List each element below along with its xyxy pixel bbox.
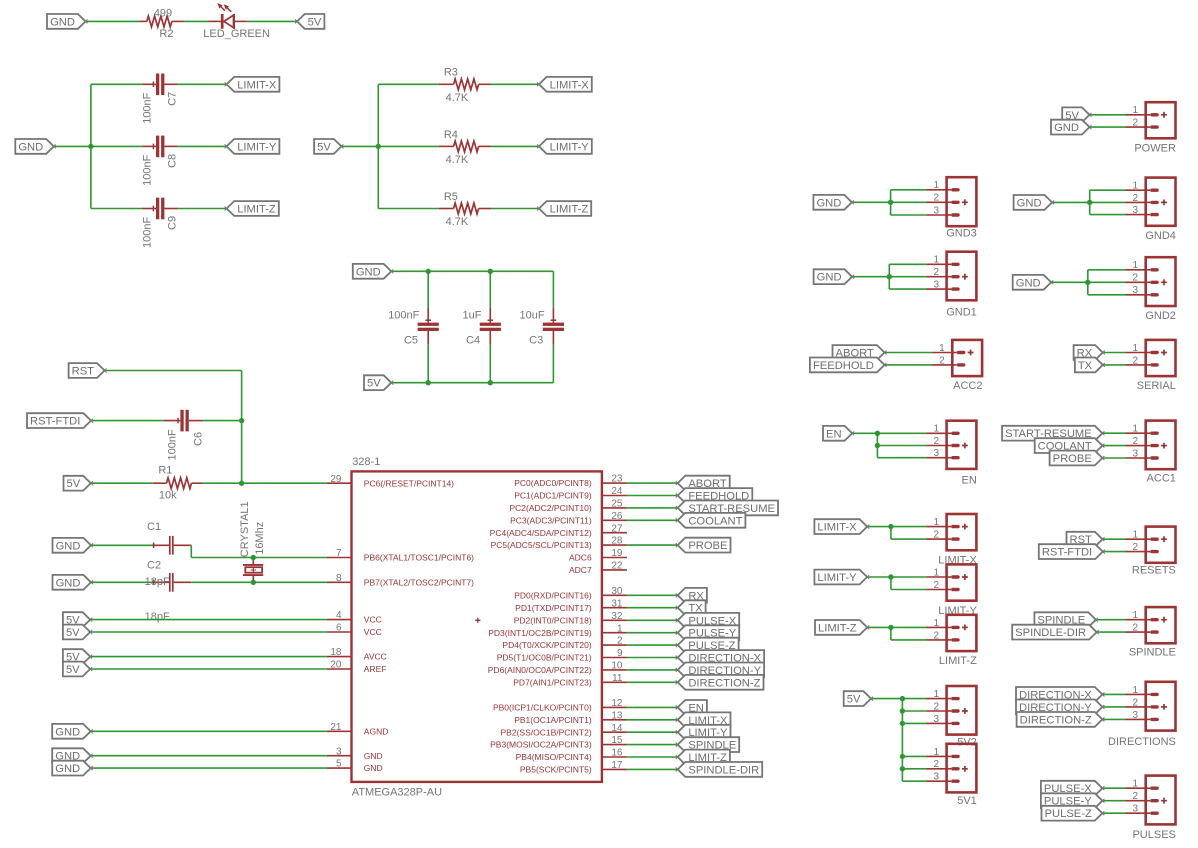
svg-text:R3: R3 (444, 67, 458, 79)
svg-text:10uF: 10uF (520, 309, 545, 321)
svg-text:SERIAL: SERIAL (1137, 380, 1176, 392)
svg-text:2: 2 (933, 759, 939, 770)
svg-text:PD1(TXD/PCINT17): PD1(TXD/PCINT17) (515, 603, 592, 613)
svg-text:PC1(ADC1/PCINT9): PC1(ADC1/PCINT9) (514, 491, 592, 501)
svg-text:5V: 5V (317, 141, 331, 153)
svg-text:GND3: GND3 (946, 228, 977, 240)
svg-text:C1: C1 (147, 521, 161, 533)
svg-text:1: 1 (617, 623, 623, 634)
svg-text:5V: 5V (67, 478, 81, 490)
svg-text:LIMIT-Z: LIMIT-Z (818, 622, 857, 634)
svg-text:5V: 5V (367, 378, 381, 390)
svg-text:1: 1 (933, 424, 939, 435)
svg-text:CRYSTAL1: CRYSTAL1 (239, 501, 251, 557)
svg-text:DIRECTIONS: DIRECTIONS (1108, 736, 1176, 748)
svg-text:RST-FTDI: RST-FTDI (30, 416, 80, 428)
svg-text:LIMIT-X: LIMIT-X (237, 79, 277, 91)
svg-text:31: 31 (611, 598, 623, 609)
svg-text:3: 3 (933, 772, 939, 783)
svg-text:C5: C5 (404, 334, 418, 346)
svg-text:PROBE: PROBE (688, 540, 727, 552)
svg-text:GND: GND (817, 272, 842, 284)
svg-text:PROBE: PROBE (1053, 453, 1092, 465)
svg-text:2: 2 (1133, 118, 1139, 129)
svg-text:20: 20 (330, 660, 342, 671)
svg-text:5: 5 (336, 759, 342, 770)
svg-text:DIRECTION-Z: DIRECTION-Z (1020, 714, 1092, 726)
svg-text:PD5(T1/OC0B/PCINT21): PD5(T1/OC0B/PCINT21) (497, 653, 592, 663)
svg-text:2: 2 (933, 193, 939, 204)
svg-text:PC6(/RESET/PCINT14): PC6(/RESET/PCINT14) (364, 478, 454, 488)
svg-text:2: 2 (1133, 273, 1139, 284)
svg-text:16Mhz: 16Mhz (254, 522, 266, 555)
svg-text:1: 1 (933, 747, 939, 758)
svg-text:9: 9 (617, 648, 623, 659)
svg-text:GND: GND (1016, 277, 1041, 289)
svg-text:18pF: 18pF (145, 611, 170, 623)
svg-text:2: 2 (1133, 791, 1139, 802)
svg-text:28: 28 (611, 536, 623, 547)
svg-text:TX: TX (1078, 360, 1093, 372)
svg-text:5V: 5V (308, 16, 322, 28)
svg-text:RST-FTDI: RST-FTDI (1042, 547, 1092, 559)
svg-text:PB0(ICP1/CLKO/PCINT0): PB0(ICP1/CLKO/PCINT0) (493, 703, 592, 713)
svg-text:PD2(INT0/PCINT18): PD2(INT0/PCINT18) (514, 615, 592, 625)
svg-text:PD6(AIN0/OC0A/PCINT22): PD6(AIN0/OC0A/PCINT22) (488, 665, 592, 675)
svg-text:EN: EN (962, 474, 977, 486)
svg-text:3: 3 (1133, 710, 1139, 721)
svg-text:EN: EN (826, 428, 842, 440)
svg-text:5V: 5V (66, 627, 80, 639)
svg-text:2: 2 (933, 630, 939, 641)
svg-text:C8: C8 (166, 154, 178, 168)
svg-text:ACC1: ACC1 (1147, 473, 1176, 485)
svg-text:2: 2 (617, 636, 623, 647)
svg-text:30: 30 (611, 586, 623, 597)
svg-text:6: 6 (336, 623, 342, 634)
svg-text:GND2: GND2 (1145, 310, 1176, 322)
svg-text:100nF: 100nF (142, 92, 154, 123)
svg-text:PD7(AIN1/PCINT23): PD7(AIN1/PCINT23) (513, 677, 592, 687)
svg-text:VCC: VCC (364, 627, 382, 637)
svg-text:3: 3 (933, 714, 939, 725)
svg-text:SPINDLE: SPINDLE (1129, 647, 1176, 659)
svg-text:POWER: POWER (1134, 143, 1176, 155)
svg-text:GND: GND (1054, 122, 1079, 134)
svg-text:PB2(SS/OC1B/PCINT2): PB2(SS/OC1B/PCINT2) (501, 727, 592, 737)
svg-text:GND: GND (18, 141, 43, 153)
svg-text:LIMIT-Z: LIMIT-Z (939, 655, 977, 667)
svg-text:11: 11 (612, 673, 623, 684)
svg-text:1: 1 (933, 517, 939, 528)
svg-text:DIRECTION-Z: DIRECTION-Z (688, 677, 760, 689)
svg-text:499: 499 (154, 7, 172, 19)
svg-text:GND: GND (1017, 197, 1042, 209)
svg-text:100nF: 100nF (142, 154, 154, 185)
svg-text:C6: C6 (193, 432, 205, 446)
svg-text:1: 1 (933, 567, 939, 578)
svg-text:FEEDHOLD: FEEDHOLD (813, 360, 874, 372)
svg-text:C9: C9 (166, 216, 178, 230)
svg-text:10k: 10k (159, 490, 177, 502)
svg-text:1: 1 (1133, 105, 1139, 116)
svg-text:13: 13 (611, 710, 623, 721)
svg-text:4: 4 (336, 610, 342, 621)
svg-text:GND: GND (816, 197, 841, 209)
svg-text:GND: GND (56, 577, 81, 589)
svg-text:PD4(T0/XCK/PCINT20): PD4(T0/XCK/PCINT20) (502, 640, 591, 650)
svg-text:2: 2 (1133, 623, 1139, 634)
svg-text:PD3(INT1/OC2B/PCINT19): PD3(INT1/OC2B/PCINT19) (488, 628, 592, 638)
svg-text:328-1: 328-1 (352, 456, 380, 468)
svg-text:32: 32 (611, 611, 623, 622)
svg-text:18pF: 18pF (145, 576, 170, 588)
svg-text:1: 1 (933, 180, 939, 191)
svg-text:26: 26 (611, 511, 623, 522)
svg-text:1: 1 (1133, 779, 1139, 790)
svg-text:2: 2 (933, 701, 939, 712)
svg-text:10: 10 (611, 661, 623, 672)
svg-text:1: 1 (933, 255, 939, 266)
svg-text:LIMIT-X: LIMIT-X (817, 522, 857, 534)
svg-text:3: 3 (1133, 448, 1139, 459)
svg-text:PB5(SCK/PCINT5): PB5(SCK/PCINT5) (520, 765, 592, 775)
svg-text:PULSES: PULSES (1132, 829, 1175, 841)
svg-text:18: 18 (330, 647, 342, 658)
svg-text:GND: GND (364, 763, 383, 773)
svg-text:100nF: 100nF (388, 309, 419, 321)
svg-text:2: 2 (1133, 193, 1139, 204)
svg-text:4.7K: 4.7K (446, 216, 469, 228)
svg-text:29: 29 (330, 474, 342, 485)
svg-text:100nF: 100nF (166, 429, 178, 460)
svg-text:2: 2 (933, 580, 939, 591)
svg-text:3: 3 (1133, 205, 1139, 216)
svg-text:PB3(MOSI/OC2A/PCINT3): PB3(MOSI/OC2A/PCINT3) (490, 740, 592, 750)
svg-text:LED_GREEN: LED_GREEN (203, 28, 270, 40)
svg-text:LIMIT-Z: LIMIT-Z (550, 204, 589, 216)
svg-text:GND: GND (50, 16, 75, 28)
svg-text:LIMIT-Y: LIMIT-Y (237, 141, 277, 153)
svg-text:PB1(OC1A/PCINT1): PB1(OC1A/PCINT1) (514, 715, 592, 725)
svg-text:1: 1 (1133, 610, 1139, 621)
svg-text:17: 17 (611, 760, 623, 771)
svg-text:3: 3 (1133, 804, 1139, 815)
svg-text:2: 2 (933, 267, 939, 278)
svg-text:2: 2 (933, 436, 939, 447)
svg-text:R4: R4 (444, 129, 458, 141)
svg-text:ACC2: ACC2 (953, 380, 982, 392)
svg-text:GND: GND (356, 266, 381, 278)
svg-text:RESETS: RESETS (1132, 565, 1176, 577)
svg-text:5V1: 5V1 (957, 795, 977, 807)
svg-text:12: 12 (611, 698, 623, 709)
svg-text:1: 1 (933, 689, 939, 700)
svg-text:21: 21 (330, 722, 342, 733)
svg-text:3: 3 (1133, 285, 1139, 296)
svg-text:16: 16 (611, 748, 623, 759)
svg-text:8: 8 (336, 573, 342, 584)
svg-text:PC3(ADC3/PCINT11): PC3(ADC3/PCINT11) (510, 515, 592, 525)
svg-text:1: 1 (1133, 424, 1139, 435)
svg-text:4.7K: 4.7K (446, 92, 469, 104)
svg-text:AVCC: AVCC (364, 652, 387, 662)
svg-text:15: 15 (611, 735, 623, 746)
svg-text:PB6(XTAL1/TOSC1/PCINT6): PB6(XTAL1/TOSC1/PCINT6) (364, 553, 474, 563)
svg-text:24: 24 (611, 486, 623, 497)
svg-text:SPINDLE-DIR: SPINDLE-DIR (688, 764, 759, 776)
svg-text:LIMIT-Y: LIMIT-Y (817, 572, 857, 584)
svg-text:3: 3 (933, 448, 939, 459)
svg-text:PD0(RXD/PCINT16): PD0(RXD/PCINT16) (514, 590, 592, 600)
svg-text:LIMIT-Z: LIMIT-Z (237, 204, 276, 216)
svg-text:LIMIT-Y: LIMIT-Y (550, 141, 590, 153)
svg-text:ADC7: ADC7 (569, 565, 592, 575)
svg-text:ATMEGA328P-AU: ATMEGA328P-AU (352, 786, 442, 798)
svg-text:1: 1 (933, 618, 939, 629)
svg-text:C7: C7 (166, 92, 178, 106)
svg-text:23: 23 (611, 474, 623, 485)
svg-text:14: 14 (611, 723, 623, 734)
svg-text:4.7K: 4.7K (446, 154, 469, 166)
svg-text:RST: RST (72, 366, 95, 378)
svg-text:AREF: AREF (364, 664, 387, 674)
svg-text:GND: GND (56, 540, 81, 552)
svg-text:PC5(ADC5/SCL/PCINT13): PC5(ADC5/SCL/PCINT13) (491, 540, 592, 550)
svg-text:C4: C4 (466, 334, 480, 346)
svg-text:COOLANT: COOLANT (688, 515, 742, 527)
svg-text:GND4: GND4 (1145, 230, 1176, 242)
svg-text:2: 2 (1133, 355, 1139, 366)
svg-text:GND1: GND1 (946, 306, 977, 318)
svg-text:2: 2 (1133, 697, 1139, 708)
svg-text:7: 7 (336, 548, 342, 559)
svg-text:R1: R1 (158, 465, 172, 477)
svg-text:R5: R5 (444, 191, 458, 203)
svg-text:VCC: VCC (364, 615, 382, 625)
svg-text:2: 2 (939, 355, 945, 366)
svg-text:2: 2 (933, 530, 939, 541)
svg-text:1: 1 (1133, 260, 1139, 271)
svg-text:AGND: AGND (364, 726, 389, 736)
svg-text:GND: GND (55, 763, 80, 775)
svg-text:5V: 5V (66, 664, 80, 676)
svg-text:1: 1 (1133, 181, 1139, 192)
svg-text:1: 1 (1133, 343, 1139, 354)
svg-text:1: 1 (1133, 685, 1139, 696)
svg-text:PB7(XTAL2/TOSC2/PCINT7): PB7(XTAL2/TOSC2/PCINT7) (364, 577, 474, 587)
svg-text:ADC6: ADC6 (569, 553, 592, 563)
svg-text:PC4(ADC4/SDA/PCINT12): PC4(ADC4/SDA/PCINT12) (490, 528, 592, 538)
svg-text:C3: C3 (529, 334, 543, 346)
svg-text:1: 1 (1133, 530, 1139, 541)
svg-text:PULSE-Z: PULSE-Z (1045, 808, 1092, 820)
svg-text:5V: 5V (847, 694, 861, 706)
svg-text:3: 3 (933, 205, 939, 216)
svg-text:LIMIT-X: LIMIT-X (550, 79, 590, 91)
svg-text:GND: GND (55, 726, 80, 738)
svg-text:19: 19 (611, 548, 623, 559)
svg-text:2: 2 (1133, 436, 1139, 447)
svg-text:22: 22 (611, 561, 623, 572)
svg-text:R2: R2 (159, 28, 173, 40)
svg-text:PB4(MISO/PCINT4): PB4(MISO/PCINT4) (516, 752, 592, 762)
svg-text:SPINDLE-DIR: SPINDLE-DIR (1015, 627, 1086, 639)
svg-text:25: 25 (611, 499, 623, 510)
svg-text:1uF: 1uF (463, 309, 482, 321)
svg-text:27: 27 (611, 523, 623, 534)
svg-text:PC2(ADC2/PCINT10): PC2(ADC2/PCINT10) (510, 503, 592, 513)
svg-text:C2: C2 (147, 559, 161, 571)
svg-text:2: 2 (1133, 542, 1139, 553)
svg-text:3: 3 (336, 746, 342, 757)
svg-text:3: 3 (933, 280, 939, 291)
svg-text:100nF: 100nF (142, 217, 154, 248)
svg-text:PC0(ADC0/PCINT8): PC0(ADC0/PCINT8) (514, 478, 592, 488)
svg-text:1: 1 (939, 343, 945, 354)
svg-text:GND: GND (364, 751, 383, 761)
